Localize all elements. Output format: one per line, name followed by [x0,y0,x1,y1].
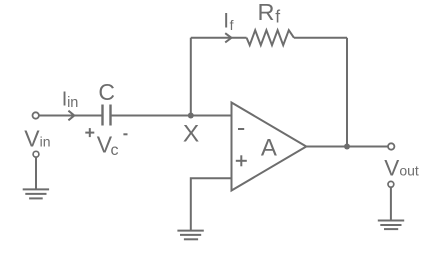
node X junction dot [188,113,194,119]
svg-text:Vc: Vc [97,131,119,159]
plus polarity mark of Vc [85,132,94,134]
minus polarity mark of Vc [123,133,127,135]
svg-text:Vin: Vin [24,125,50,151]
output reference terminal circle [388,181,394,187]
op-amp inverting input minus sign [238,128,244,130]
wire op-amp plus input [191,178,232,230]
capacitor C right plate [109,105,111,126]
wire op-amp output [306,146,388,148]
svg-text:If: If [223,10,233,33]
feedback wire vertical right [346,38,348,147]
svg-text:C: C [98,79,115,105]
ground under op-amp plus input [177,230,203,232]
svg-text:Iin: Iin [62,88,79,111]
input terminal circle [33,112,39,118]
output terminal circle [388,143,394,149]
capacitor C left plate [101,105,103,126]
svg-text:Vout: Vout [384,156,419,181]
svg-text:X: X [183,121,199,148]
op-amp non-inverting input plus sign [236,160,247,162]
wire output reference to ground [390,187,392,220]
svg-text:A: A [261,134,277,161]
arrow If [225,33,231,42]
feedback wire top right segment [294,37,347,39]
arrow Iin [68,111,74,121]
svg-text:Rf: Rf [258,0,281,27]
resistor Rf zigzag [247,30,294,45]
feedback wire top left segment [191,37,247,39]
wire input reference to ground [35,157,37,189]
op-amp A triangle [232,103,307,191]
wire capacitor to op-amp inverting input [112,115,232,117]
feedback wire vertical left [190,38,192,116]
wire input to capacitor [39,115,102,117]
input reference terminal circle [33,151,39,157]
output junction dot [344,144,350,150]
ground at input [23,188,49,190]
ground at output [378,220,404,222]
